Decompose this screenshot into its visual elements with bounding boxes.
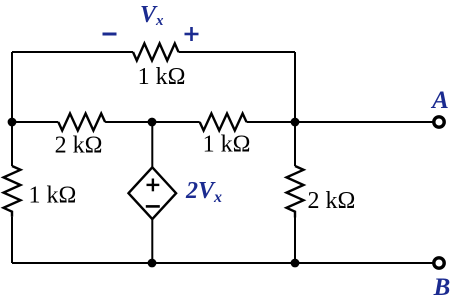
wire right vertical from node to 2k resistor bbox=[294, 122, 296, 166]
svg-text:2 kΩ: 2 kΩ bbox=[55, 133, 103, 159]
wire left vertical from resistor to bottom wire bbox=[11, 217, 13, 263]
minus sign inside dependent source bbox=[146, 205, 160, 208]
svg-text:2Vx: 2Vx bbox=[185, 178, 222, 206]
plus sign inside dependent source bbox=[147, 179, 160, 192]
node (right middle junction) bbox=[291, 118, 300, 127]
wire left vertical from top corner down to left node bbox=[11, 52, 13, 122]
wire top from resistor to right corner bbox=[179, 51, 296, 53]
wire right vertical from resistor to bottom node bbox=[294, 218, 296, 264]
resistor 1 kOhm (middle right) bbox=[200, 114, 247, 131]
resistor 2 kOhm (right vertical) bbox=[287, 166, 304, 218]
node (left middle junction) bbox=[8, 118, 17, 127]
node (bottom right junction) bbox=[291, 259, 300, 268]
resistor 2 kOhm (middle left) bbox=[58, 114, 105, 131]
terminal A (open circle) bbox=[434, 117, 444, 127]
svg-text:1 kΩ: 1 kΩ bbox=[29, 183, 77, 209]
polarity plus sign (right of Vx, blue) bbox=[185, 27, 199, 41]
wire middle from 1k resistor to right node bbox=[247, 121, 296, 123]
svg-text:1 kΩ: 1 kΩ bbox=[203, 132, 251, 158]
svg-text:A: A bbox=[430, 87, 449, 114]
svg-text:B: B bbox=[433, 274, 451, 300]
wire from right node to terminal A bbox=[295, 121, 433, 123]
wire middle from 2k resistor to center node bbox=[105, 121, 152, 123]
resistor 1 kOhm (top, between node at x=12 and node at x=295) bbox=[133, 44, 179, 61]
wire middle from left node to 2k resistor bbox=[12, 121, 58, 123]
svg-text:1 kΩ: 1 kΩ bbox=[138, 64, 186, 90]
polarity minus sign (left of Vx, blue) bbox=[103, 33, 117, 36]
dependent source 2Vx (diamond) bbox=[129, 167, 177, 219]
wire bottom rail bbox=[12, 262, 433, 264]
wire middle from center node to 1k resistor bbox=[152, 121, 200, 123]
wire from center node down to dependent source bbox=[151, 122, 153, 167]
terminal B (open circle) bbox=[434, 258, 444, 268]
wire left vertical from node to left resistor bbox=[11, 122, 13, 166]
wire right vertical from top corner to right node bbox=[294, 52, 296, 122]
node (bottom center junction) bbox=[148, 259, 157, 268]
wire from dependent source down to bottom wire bbox=[151, 219, 153, 263]
node (center middle junction) bbox=[148, 118, 157, 127]
svg-text:2 kΩ: 2 kΩ bbox=[308, 188, 356, 214]
resistor 1 kOhm (left vertical) bbox=[4, 166, 21, 217]
svg-text:Vx: Vx bbox=[140, 2, 164, 29]
wire top from left corner to top resistor bbox=[12, 51, 133, 53]
